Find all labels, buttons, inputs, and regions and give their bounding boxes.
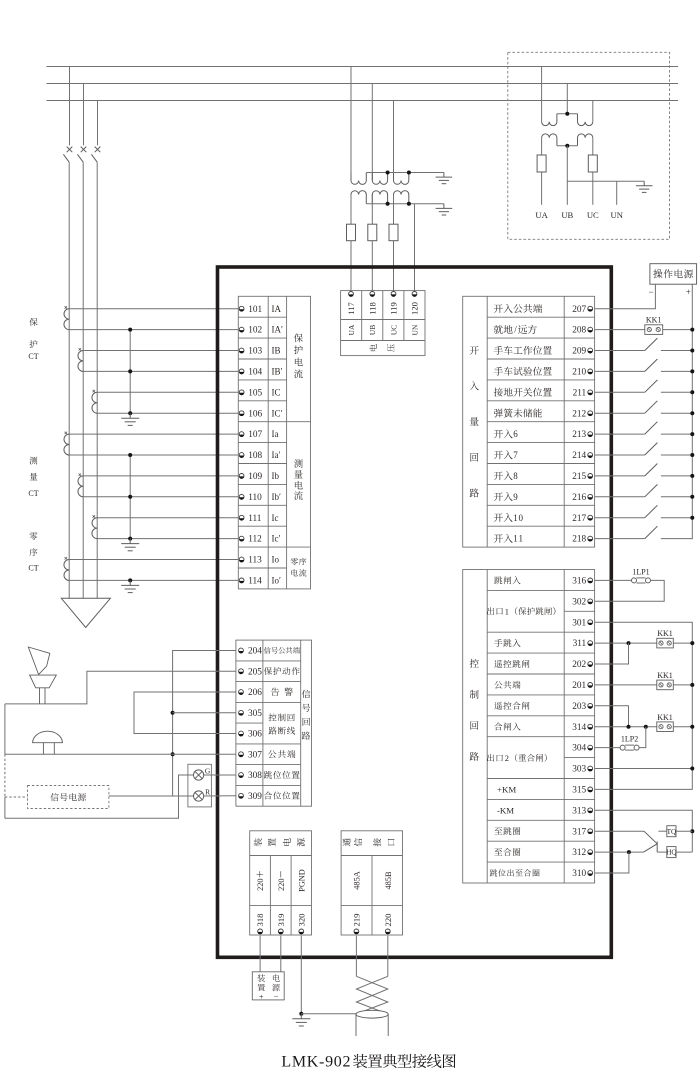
wire 311 to KK1 contact 2 (595, 642, 657, 644)
wire contact to plus rail (661, 433, 692, 435)
wire UN from secondary bar to terminal 120 (414, 204, 416, 292)
wire 316 to 1LP1 (595, 579, 632, 581)
svg-text:215: 215 (572, 472, 586, 482)
junction plus rail 311 (690, 641, 694, 645)
svg-text:UC: UC (587, 210, 599, 220)
voltage terminal block frame (341, 291, 425, 356)
terminal 103 IB (239, 346, 280, 357)
svg-text:314: 314 (572, 723, 586, 733)
junction PGND (299, 1012, 303, 1016)
junction plus rail (690, 411, 694, 415)
wire CT 1c polarity end to terminal 111 (97, 517, 238, 519)
bus PT primary winding BC (578, 114, 593, 126)
bus L3 (46, 100, 678, 102)
svg-text:307: 307 (248, 750, 262, 760)
svg-text:305: 305 (248, 709, 262, 719)
wire ub to ground tee (567, 180, 644, 182)
svg-text:210: 210 (572, 368, 586, 378)
svg-text:1: 1 (513, 513, 518, 523)
bus PT primary phase B drop (566, 84, 568, 114)
svg-text:UA: UA (535, 210, 548, 220)
wire 301 to control plus rail (595, 622, 693, 789)
svg-text:203: 203 (572, 702, 586, 712)
fuse FU4 (537, 155, 546, 172)
svg-text:302: 302 (572, 597, 586, 607)
wire contact to plus rail (661, 475, 692, 477)
wire TQ to rail (676, 830, 692, 832)
CT winding 1C on phase C (92, 392, 97, 413)
wire 215 to contact (595, 475, 645, 477)
twisted pair cable (356, 976, 387, 1014)
junction primary bar C (407, 171, 411, 175)
svg-text:0: 0 (518, 513, 523, 523)
svg-text:317: 317 (572, 827, 586, 837)
terminal 120 UN (410, 292, 420, 336)
wire 219 down (355, 936, 357, 977)
label 控制回路断线 (305/306) (269, 713, 296, 734)
wire PT secondary UA to fuse (350, 195, 352, 225)
svg-text:214: 214 (572, 451, 586, 461)
svg-text:+: + (259, 992, 264, 1001)
terminal 308 (239, 771, 300, 781)
svg-text:G: G (205, 766, 211, 775)
svg-text:110: 110 (248, 493, 262, 503)
junction bus PT secondary b (565, 144, 569, 148)
bus PT primary phase C drop (592, 101, 594, 122)
svg-text:312: 312 (572, 848, 586, 858)
terminal 220 485B (383, 871, 393, 934)
wire contact to plus rail (661, 496, 692, 498)
junction on wire 106 (128, 411, 132, 415)
svg-text:109: 109 (248, 472, 262, 482)
junction plus rail (690, 453, 694, 457)
svg-text:1: 1 (505, 607, 509, 616)
svg-text:204: 204 (248, 647, 262, 657)
wire contact to plus rail (661, 391, 692, 393)
comm terminal block 通信接口 (341, 831, 402, 935)
terminal 317 (494, 827, 592, 837)
breaker aux contact (close) (644, 844, 658, 852)
wire bottom to G lamp (5, 775, 194, 818)
signal lamp R (trip indicator) (194, 787, 211, 801)
wire 305 stub (173, 712, 236, 714)
svg-text:6: 6 (513, 429, 518, 439)
svg-text:103: 103 (248, 347, 262, 357)
operate power supply box 操作电源 (650, 264, 697, 285)
bus PT secondary bar (557, 145, 578, 147)
link 1LP1 (632, 567, 651, 583)
terminal 310 (490, 869, 593, 879)
svg-text:1LP2: 1LP2 (621, 735, 638, 744)
PT T1 primary winding B (372, 173, 387, 185)
svg-text:Io: Io (272, 555, 280, 565)
aux contact for terminal 212 (645, 401, 658, 413)
terminal 314 (494, 723, 592, 733)
terminal 213 开入6 (494, 429, 593, 440)
bus L2 (46, 83, 678, 85)
junction on wire 108 (128, 453, 132, 457)
group label 信号回路 (302, 690, 310, 740)
PT T1 secondary winding B (372, 191, 387, 204)
svg-text:KK1: KK1 (657, 671, 673, 680)
wire fuse FU4 down (541, 172, 543, 205)
svg-text:309: 309 (248, 792, 262, 802)
svg-text:102: 102 (248, 326, 262, 336)
wire KK1 to plus rail (663, 329, 693, 331)
PT T1 primary winding C (394, 173, 409, 185)
junction plus rail (690, 390, 694, 394)
svg-text:UB: UB (561, 210, 573, 220)
wire 304 to 1LP2 (595, 747, 621, 749)
svg-text:220＋: 220＋ (256, 870, 265, 891)
wire PT secondary UB to fuse (371, 195, 373, 225)
wire CT Io polarity end to terminal 113 (69, 559, 238, 561)
terminal 210 手车试验位置 (494, 367, 593, 378)
bus PT secondary winding ab (542, 134, 557, 146)
breaker QF phase A (x mark + blade) (63, 147, 72, 163)
label 出口1（保护跳闸） (487, 607, 555, 616)
wire contact to plus rail (661, 538, 692, 540)
terminal 206 (239, 688, 293, 698)
phase C line down (96, 162, 98, 598)
junction on wire 110 (128, 495, 132, 499)
wire un drop (616, 181, 618, 205)
svg-text:201: 201 (572, 681, 586, 691)
svg-text:Ib: Ib (272, 471, 280, 481)
junction plus rail 303 (690, 767, 694, 771)
svg-text:218: 218 (572, 535, 586, 545)
junction plus rail (690, 369, 694, 373)
svg-text:KK1: KK1 (657, 713, 673, 722)
PT T1 primary phase B drop (371, 84, 373, 181)
aux contact for terminal 213 (645, 422, 658, 434)
junction plus rail (690, 474, 694, 478)
wire ub down (566, 146, 568, 205)
wire to trip coil (658, 830, 666, 832)
terminal 118 UB (368, 292, 378, 336)
terminal 108 Ia' (239, 450, 280, 461)
svg-text:UA: UA (347, 324, 356, 335)
terminal 112 Ic' (239, 534, 280, 545)
svg-text:217: 217 (572, 514, 586, 524)
wire KK1-4 to plus rail (673, 726, 692, 728)
link 1LP2 (620, 735, 639, 751)
ground measuring CT (129, 539, 131, 544)
wire G lamp to 308 (204, 774, 236, 776)
fuse FU2 (368, 224, 377, 241)
terminal 320 PGND (296, 869, 306, 934)
terminal 107 Ia (239, 429, 278, 440)
svg-text:308: 308 (248, 771, 262, 781)
PT T1 primary phase A drop (350, 67, 352, 181)
svg-text:+: + (686, 287, 691, 297)
svg-text:319: 319 (276, 914, 286, 927)
svg-text:IA: IA (272, 304, 282, 314)
svg-text:Ia: Ia (272, 429, 279, 439)
aux contact for terminal 218 (645, 526, 658, 538)
label 装置电源 (254, 838, 305, 846)
fuse FU3 (389, 224, 398, 241)
junction plus rail 208 (690, 328, 694, 332)
trip coil TQ (667, 826, 677, 837)
wire CT 1B polarity end to terminal 103 (83, 350, 238, 352)
wire 220 down (387, 936, 389, 977)
wire CT 1B non-polarity end to terminal 104 (83, 370, 238, 372)
aux contact for terminal 216 (645, 484, 658, 496)
ground bus PT secondary (643, 181, 645, 186)
wire 303 to plus rail (595, 768, 693, 770)
wire R lamp to 309 (204, 795, 236, 797)
junction secondary bar c (407, 202, 411, 206)
terminal 202 (494, 660, 592, 670)
svg-text:7: 7 (513, 450, 518, 460)
svg-text:106: 106 (248, 409, 262, 419)
wire 212 to contact (595, 412, 645, 414)
label 测量CT (28, 457, 38, 498)
svg-text:304: 304 (572, 744, 586, 754)
terminal 304 (572, 744, 592, 754)
terminal 319 220- (276, 870, 286, 934)
junction on wire 114 (128, 578, 132, 582)
wire CT 1a polarity end to terminal 107 (69, 433, 238, 435)
ground PT T1 primary neutral (443, 173, 445, 178)
wire 206 to 306 link (134, 692, 236, 734)
svg-text:CT: CT (28, 352, 38, 361)
signal power box 信号电源 (dashed) (28, 786, 109, 809)
wire contact to plus rail (661, 350, 692, 352)
svg-text:IB: IB (272, 346, 281, 356)
svg-text:Ia′: Ia′ (272, 450, 281, 460)
svg-text:−: − (274, 992, 279, 1001)
wire CT 1C polarity end to terminal 105 (97, 391, 238, 393)
svg-text:313: 313 (572, 806, 586, 816)
svg-text:113: 113 (248, 556, 262, 566)
ground PT T1 secondary neutral (443, 204, 445, 209)
terminal 204 (239, 647, 300, 657)
wire 307 bell line (5, 753, 236, 755)
wire 209 to contact (595, 350, 645, 352)
ground protection CT (129, 413, 131, 418)
terminal 114 Io' (239, 576, 281, 587)
protection device LMK-902 enclosure (218, 267, 612, 957)
svg-text:IB′: IB′ (272, 367, 283, 377)
switch KK1 contact 4 (close) (657, 713, 674, 732)
signal lamp G (close indicator) (194, 766, 211, 780)
junction 312/310 (627, 850, 631, 854)
svg-text:202: 202 (572, 660, 586, 670)
aux contact for terminal 209 (645, 338, 658, 350)
terminal 305 (239, 709, 263, 719)
svg-text:220: 220 (383, 914, 393, 927)
terminal 218 开入11 (494, 534, 593, 545)
svg-text:KK1: KK1 (646, 316, 662, 325)
svg-text:Ic′: Ic′ (272, 534, 281, 544)
terminal 201 (494, 681, 592, 691)
svg-text:101: 101 (248, 305, 262, 315)
wire common measuring CT star point (129, 455, 131, 539)
ground zero-sequence CT (129, 580, 131, 585)
svg-text:310: 310 (572, 869, 586, 879)
svg-text:Io′: Io′ (272, 576, 281, 586)
cable shield (356, 1010, 388, 1036)
svg-text:216: 216 (572, 493, 586, 503)
wire fuse FU2 to terminal 118 (371, 241, 373, 292)
svg-text:114: 114 (248, 577, 262, 587)
wire 217 to contact (595, 517, 645, 519)
wire CT 1a non-polarity end to terminal 108 (69, 454, 238, 456)
svg-text:220－: 220－ (277, 870, 286, 891)
terminal 203 (494, 702, 592, 712)
bus PT cabinet (dashed) (508, 52, 670, 239)
signal lamp box (188, 764, 212, 807)
svg-text:117: 117 (346, 302, 356, 315)
svg-text:311: 311 (573, 639, 587, 649)
bus PT primary winding AB (542, 114, 557, 126)
terminal 207 开入公共端 (494, 304, 593, 315)
aux contact for terminal 215 (645, 464, 658, 476)
wire contact to plus rail (661, 370, 692, 372)
CT winding 1B on phase B (78, 351, 83, 372)
wire CT 1A non-polarity end to terminal 102 (69, 329, 238, 331)
terminal 217 开入10 (494, 513, 593, 524)
bus PT secondary winding bc (578, 134, 593, 146)
junction plus rail (690, 516, 694, 520)
terminal 111 Ic (239, 513, 278, 524)
svg-text:108: 108 (248, 451, 262, 461)
terminal 309 (239, 792, 300, 802)
bus PT primary bar (557, 113, 578, 115)
terminal 212 弹簧未储能 (494, 408, 593, 419)
label 零序CT (28, 532, 38, 572)
svg-text:9: 9 (513, 492, 518, 502)
wire 208 to KK1 (595, 329, 645, 331)
terminal 105 IC (239, 387, 280, 398)
wire CT 1A polarity end to terminal 101 (69, 308, 238, 310)
wire 218 to contact (595, 538, 645, 540)
svg-text:104: 104 (248, 368, 262, 378)
svg-text:UC: UC (389, 325, 398, 335)
junction plus rail 314 (690, 725, 694, 729)
terminal 219 485A (351, 871, 361, 934)
terminal 110 Ib' (239, 492, 281, 503)
phase A line down (68, 162, 70, 598)
junction TQ rail (690, 829, 694, 833)
svg-text:UB: UB (368, 325, 377, 335)
junction 314/1LP2 (644, 725, 648, 729)
junction secondary bar b (386, 202, 390, 206)
terminal 214 开入7 (494, 450, 593, 461)
aux contact for terminal 217 (645, 505, 658, 517)
label 出口2（重合闸） (487, 754, 547, 763)
group label 控制回路 (470, 659, 479, 761)
wire 320 PGND down (300, 936, 302, 1014)
wire 310 up to 312 (595, 852, 629, 873)
svg-text:UN: UN (610, 210, 623, 220)
wire 314 to KK1 contact 4 (595, 726, 657, 728)
terminal 311 (494, 639, 592, 649)
terminal 117 UA (346, 292, 356, 336)
svg-text:485B: 485B (384, 871, 393, 889)
wire CT 1b polarity end to terminal 109 (83, 475, 238, 477)
wire 313 rail down to coils (595, 810, 693, 852)
title LMK-902装置典型接线图 (281, 1054, 455, 1071)
phase B drop from bus (83, 84, 85, 146)
wire 216 to contact (595, 496, 645, 498)
group label 开入量回路 (470, 346, 479, 497)
svg-text:208: 208 (572, 326, 586, 336)
phase A drop from bus (69, 67, 71, 146)
PT T1 secondary neutral bar (366, 203, 444, 205)
wire 1LP2 up to 314 (639, 727, 646, 748)
junction plus rail (690, 432, 694, 436)
terminal 301 (572, 618, 592, 628)
svg-text:107: 107 (248, 430, 262, 440)
phase B line down (82, 162, 84, 598)
PT T1 primary phase C drop (393, 101, 395, 181)
junction on wire 102 (128, 328, 132, 332)
junction plus rail 201 (690, 683, 694, 687)
ground PGND (300, 1014, 302, 1019)
wire PT secondary UC to fuse (393, 195, 395, 225)
terminal 216 开入9 (494, 492, 593, 503)
svg-text:1LP1: 1LP1 (632, 567, 649, 576)
phase C drop from bus (97, 101, 99, 146)
signal circuit terminal block frame (236, 640, 312, 806)
group label 保护电流 (294, 334, 303, 379)
group label 测量电流 (294, 459, 303, 500)
svg-text:205: 205 (248, 667, 262, 677)
wire KK1-2 to plus rail (673, 642, 692, 644)
CT winding 1A on phase A (64, 309, 69, 330)
svg-text:209: 209 (572, 347, 586, 357)
alarm bell (33, 731, 63, 754)
PT T1 primary winding A (351, 173, 366, 185)
fuse FU1 (347, 224, 356, 241)
wire signal power down leg (4, 797, 6, 818)
terminal 102 IA' (239, 325, 283, 336)
wire contact to plus rail (661, 454, 692, 456)
svg-text:1: 1 (518, 534, 523, 544)
wire 204 common down (173, 651, 236, 797)
junction 305 (171, 711, 175, 715)
bus PT primary phase A drop (541, 67, 543, 122)
svg-text:Ic: Ic (272, 513, 279, 523)
terminal 113 Io (239, 555, 279, 566)
device power terminal block 装置电源 (250, 831, 312, 935)
terminal 211 接地开关位置 (494, 388, 593, 399)
PT T1 primary neutral bar (366, 172, 444, 174)
terminal 307 (239, 750, 296, 760)
terminal 104 IB' (239, 367, 282, 378)
CT winding Io on phase A (64, 560, 69, 581)
svg-text:−: − (648, 287, 653, 297)
current input terminal block frame (238, 296, 310, 589)
PT T1 secondary winding A (351, 191, 366, 204)
svg-text:485A: 485A (352, 871, 361, 889)
svg-text:206: 206 (248, 688, 262, 698)
svg-text:301: 301 (572, 618, 586, 628)
svg-text:HQ: HQ (666, 849, 677, 857)
junction bus PT primary B (565, 112, 569, 116)
breaker QF phase C (x mark + blade) (91, 147, 100, 163)
wire contact to plus rail (661, 412, 692, 414)
svg-text:-KM: -KM (497, 805, 514, 815)
svg-text:120: 120 (410, 302, 420, 315)
terminal 316 (494, 576, 592, 586)
svg-text:Ib′: Ib′ (272, 492, 281, 502)
terminal 109 Ib (239, 471, 279, 482)
wire to close coil (657, 851, 667, 853)
